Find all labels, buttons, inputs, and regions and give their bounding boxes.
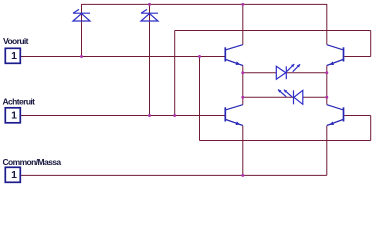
wire V6c Q4 emitter drop — [326, 126, 328, 176]
wire V6a Q2 collector riser — [326, 4, 328, 45]
svg-text:1: 1 — [11, 169, 17, 181]
wire V7b Q4 base drop — [370, 116, 372, 141]
wire H5 lower LED row — [243, 96, 327, 98]
diode D2 — [141, 9, 158, 21]
wire H6 Achteruit net — [21, 115, 225, 117]
node junction H6-V3 — [173, 114, 176, 117]
wire H7 Common/Massa net — [21, 174, 327, 176]
connector J1 Vooruit — [5, 48, 20, 63]
svg-text:Achteruit: Achteruit — [3, 96, 36, 106]
wire V5a Q1 collector riser — [242, 4, 244, 45]
wire V4 Vooruit to Q4 base — [199, 57, 201, 141]
transistor Q1 — [225, 45, 243, 66]
LED D3 upper — [276, 64, 300, 79]
node junction H4-V5b — [241, 71, 244, 74]
wire V5c Q3 emitter drop — [242, 126, 244, 176]
wire V2 diode2 branch — [149, 4, 151, 116]
diode D1 — [73, 9, 90, 21]
node junction H3-V4 — [198, 55, 201, 58]
wire H8 Q4 base to Vooruit — [200, 140, 371, 142]
wire top rail H1 — [82, 3, 327, 5]
node junction H1-V5a — [241, 3, 244, 6]
node junction H3-V1 — [80, 55, 83, 58]
wire V1 diode1 branch — [81, 4, 83, 57]
wire H4 upper LED row — [243, 72, 327, 74]
svg-text:Common/Massa: Common/Massa — [3, 157, 62, 167]
transistor Q2 — [327, 45, 344, 66]
svg-text:Vooruit: Vooruit — [3, 36, 29, 46]
connector J2 Achteruit — [5, 108, 20, 123]
connector J3 Common/Massa — [5, 167, 20, 182]
wire V5b Q1 emitter to Q3 collector — [242, 66, 244, 105]
transistor Q4 — [327, 105, 344, 126]
wire H3 Vooruit net — [21, 56, 225, 58]
LED D4 lower — [278, 90, 303, 105]
wire V7a Q2 base drop — [370, 31, 372, 57]
wire V6b Q2 emitter to Q4 collector — [326, 66, 328, 105]
wire Q2 base stub — [344, 56, 371, 58]
wire H2 cross-couple Achteruit to Q2 base — [175, 30, 371, 32]
node junction H5-V5b — [241, 96, 244, 99]
svg-text:1: 1 — [11, 50, 17, 62]
node junction H5-V6b — [325, 96, 328, 99]
node junction H4-V6b — [325, 71, 328, 74]
transistor Q3 — [225, 105, 243, 126]
node junction H7-V5c — [241, 174, 244, 177]
wire V3 — [174, 31, 176, 116]
node junction H1-V2 — [148, 3, 151, 6]
node junction H6-V2 — [148, 114, 151, 117]
svg-text:1: 1 — [11, 110, 17, 122]
wire Q4 base stub — [344, 115, 371, 117]
